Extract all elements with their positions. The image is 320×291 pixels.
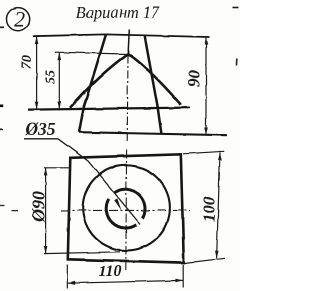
cone right slant: [128, 54, 181, 105]
plan square plate: [68, 154, 184, 262]
dimension 110 right arrow: [175, 279, 183, 283]
svg-text:100: 100: [200, 196, 219, 222]
dimension 110 left extension: [66, 265, 68, 289]
dimension 100 line: [217, 153, 220, 259]
svg-text:Ø35: Ø35: [24, 119, 55, 139]
dimension Ø90 bottom extension: [44, 252, 120, 254]
label Ø35 leader: [58, 139, 140, 224]
label Ø35 leader arrowhead: [114, 198, 121, 210]
stray tick right edge mid: [236, 59, 238, 66]
pedestal left side: [79, 106, 84, 132]
dimension 55 extension line to apex: [55, 52, 127, 54]
dimension 55 arrow down: [58, 102, 62, 110]
dimension 100 arrow up: [218, 153, 222, 161]
dimension Ø90 line: [45, 168, 47, 254]
front view centerline: [128, 30, 129, 56]
stray dash left edge top: [0, 26, 4, 28]
pedestal right side: [158, 106, 162, 134]
dimension 90 arrow up: [204, 37, 208, 45]
dimension 70 arrow down: [35, 102, 39, 110]
dimension 55 line: [58, 53, 60, 110]
plan vertical centerline: [125, 150, 128, 272]
stray dash left edge mid: [0, 205, 5, 207]
svg-text:Вариант 17: Вариант 17: [76, 3, 161, 22]
plan inner circle Ø35: [106, 199, 136, 228]
stray dash centerline left: [12, 210, 19, 212]
svg-text:55: 55: [44, 70, 59, 84]
stray dash top-right: [233, 7, 239, 9]
dimension Ø90 top extension: [44, 167, 70, 169]
label Ø35 shelf: [24, 138, 58, 140]
svg-text:90: 90: [185, 70, 204, 88]
frustum right side: [145, 35, 158, 106]
dimension 110 line: [68, 280, 184, 283]
plan outer circle Ø90: [83, 165, 170, 250]
frustum left side: [84, 35, 106, 107]
plan horizontal centerline: [61, 209, 190, 211]
dimension 110 left arrow: [68, 281, 76, 285]
stray mark left edge upper: [0, 105, 3, 108]
plan inner circle Ø35 arc 2: [115, 189, 145, 218]
circled index 2 : circle: [7, 8, 30, 31]
svg-text:2: 2: [14, 6, 25, 31]
dimension Ø90 arrow down: [44, 246, 48, 254]
dimension 100 bottom extension: [185, 258, 226, 263]
svg-text:110: 110: [98, 263, 121, 280]
dimension 110 right extension: [182, 265, 184, 288]
dimension 70 line: [36, 36, 38, 109]
base line with extensions: [28, 108, 190, 110]
dimension 90 arrow down: [204, 127, 208, 135]
svg-text:70: 70: [20, 55, 35, 69]
top edge line with extensions: [33, 34, 209, 37]
dimension 55 arrow up: [58, 53, 62, 61]
dimension 90 line: [205, 37, 207, 134]
stray dash left edge y129: [0, 128, 3, 130]
pedestal bottom edge with right extension: [79, 132, 227, 135]
dimension 70 arrow up: [35, 36, 39, 44]
dimension 100 top extension: [183, 151, 224, 154]
dimension 100 arrow down: [215, 251, 219, 259]
svg-text:Ø90: Ø90: [28, 191, 48, 223]
cone left slant: [70, 54, 128, 108]
front view centerline lower dash-dot: [126, 55, 129, 143]
dimension Ø90 arrow up: [44, 168, 48, 176]
sheet background: [0, 0, 240, 291]
